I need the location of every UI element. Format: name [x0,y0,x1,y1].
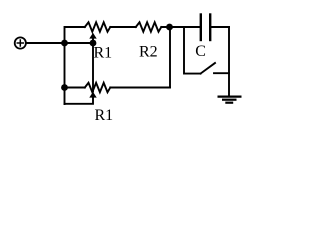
svg-text:R1: R1 [95,107,114,124]
svg-text:C: C [195,43,206,60]
svg-text:R2: R2 [139,44,158,61]
svg-text:R1: R1 [94,44,113,61]
